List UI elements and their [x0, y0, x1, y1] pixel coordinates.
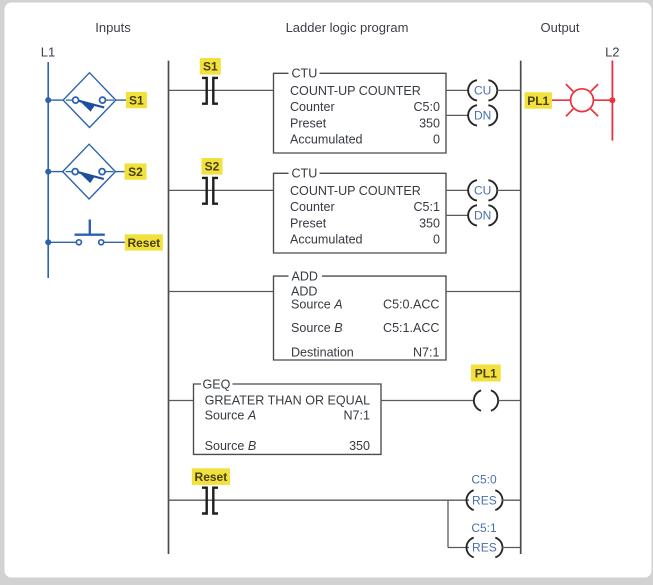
svg-text:C5:0: C5:0 — [413, 100, 440, 114]
svg-text:N7:1: N7:1 — [413, 345, 440, 359]
switch S1 (flow switch in diamond) — [63, 73, 116, 128]
wire box1 to CU coil — [446, 89, 469, 91]
wire RES2 coil to right rail — [502, 547, 521, 549]
svg-text:C5:0: C5:0 — [471, 473, 497, 487]
svg-text:L2: L2 — [605, 45, 619, 60]
wire S1 switch to label — [116, 99, 127, 101]
svg-text:S1: S1 — [129, 93, 144, 107]
OUTPUT-SIDE — [525, 61, 616, 141]
svg-text:Preset: Preset — [290, 216, 327, 230]
svg-text:CTU: CTU — [292, 67, 318, 81]
coil RES C5:1 — [466, 538, 502, 558]
compare block GEQ — [194, 384, 382, 454]
svg-text:Ladder logic program: Ladder logic program — [286, 20, 409, 35]
svg-text:RES: RES — [472, 493, 497, 507]
wire lamp to rail L2 — [593, 99, 612, 101]
svg-text:Counter: Counter — [290, 100, 335, 114]
wire box2 to CU coil — [446, 189, 469, 191]
pushbutton Reset (N.O.) — [75, 220, 105, 245]
svg-text:C5:1.ACC: C5:1.ACC — [383, 321, 439, 335]
svg-text:Preset: Preset — [290, 116, 327, 130]
switch S2 (flow switch in diamond) — [63, 144, 116, 199]
svg-text:C5:1: C5:1 — [413, 200, 440, 214]
svg-text:ADD: ADD — [291, 284, 318, 298]
svg-text:0: 0 — [433, 133, 440, 147]
wire CU coil2 to right rail — [497, 189, 521, 191]
wire RES1 coil to right rail — [502, 499, 521, 501]
wire rail to Reset button — [48, 241, 76, 243]
wire box2 to DN coil — [446, 214, 469, 216]
svg-text:PL1: PL1 — [527, 94, 549, 108]
svg-text:COUNT-UP COUNTER: COUNT-UP COUNTER — [290, 184, 421, 198]
svg-text:350: 350 — [349, 439, 370, 453]
svg-text:Accumulated: Accumulated — [290, 133, 363, 147]
svg-text:Output: Output — [540, 20, 579, 35]
svg-text:Accumulated: Accumulated — [290, 233, 363, 247]
node junction S2 row — [45, 169, 51, 175]
svg-text:COUNT-UP COUNTER: COUNT-UP COUNTER — [290, 84, 421, 98]
wire PL1 coil to right rail — [498, 400, 520, 402]
svg-text:0: 0 — [433, 233, 440, 247]
svg-text:CTU: CTU — [292, 167, 318, 181]
label Reset (rung5) — [192, 468, 230, 485]
wire branch to RES2 coil — [448, 547, 469, 549]
wire rung3 right — [446, 291, 521, 293]
node junction Reset row — [45, 239, 51, 245]
label S2 (rung2) — [202, 158, 223, 175]
ladder left rail — [168, 61, 170, 554]
power rail L2 — [611, 61, 613, 141]
svg-text:N7:1: N7:1 — [343, 408, 370, 422]
svg-text:350: 350 — [419, 216, 440, 230]
svg-text:PL1: PL1 — [475, 367, 497, 381]
wire PL1 label to lamp — [552, 99, 571, 101]
svg-text:GREATER THAN OR EQUAL: GREATER THAN OR EQUAL — [205, 393, 370, 407]
label PL1 (rung4) — [471, 365, 501, 382]
add block ADD — [274, 276, 447, 360]
wire rung3 left — [169, 291, 274, 293]
counter block CTU C5:0 — [274, 73, 447, 153]
contact Reset — [202, 488, 218, 514]
svg-text:Counter: Counter — [290, 200, 335, 214]
coil CU (rung1) — [468, 80, 497, 100]
power rail L1 — [47, 62, 49, 278]
label S1 (rung1) — [200, 58, 221, 75]
ladder right rail — [520, 61, 522, 554]
wire GEQ to PL1 coil — [381, 400, 475, 402]
wire Reset button to label — [104, 241, 126, 243]
svg-text:Reset: Reset — [195, 470, 228, 484]
label S1 (input) — [126, 92, 147, 108]
counter block CTU C5:1 — [274, 173, 447, 253]
wire rung1 — [169, 89, 274, 91]
contact S2 — [202, 178, 218, 204]
contact S1 — [202, 78, 218, 104]
svg-text:S1: S1 — [203, 60, 218, 74]
coil DN (rung2) — [468, 205, 497, 225]
SECTION-HEADERS — [41, 20, 620, 60]
INPUT-SIDE — [45, 62, 163, 278]
label PL1 (output) — [525, 92, 552, 108]
svg-text:S2: S2 — [205, 160, 220, 174]
wire rail to S2 switch — [48, 171, 64, 173]
svg-text:Source B: Source B — [291, 321, 343, 335]
wire rung2 — [169, 189, 274, 191]
coil DN (rung1) — [468, 105, 497, 125]
svg-text:Inputs: Inputs — [95, 20, 131, 35]
LADDER — [169, 58, 521, 557]
wire branch down — [447, 500, 449, 547]
label S2 (input) — [125, 163, 147, 179]
svg-text:DN: DN — [474, 209, 491, 223]
svg-text:Source A: Source A — [205, 408, 257, 422]
wire CU coil to right rail — [497, 89, 521, 91]
wire S2 switch to label — [115, 171, 126, 173]
svg-text:C5:1: C5:1 — [471, 521, 497, 535]
wire rung4 left — [169, 400, 194, 402]
wire rung5 — [169, 499, 470, 501]
svg-text:Source B: Source B — [205, 439, 257, 453]
svg-text:RES: RES — [472, 541, 497, 555]
svg-text:Reset: Reset — [127, 236, 160, 250]
coil CU (rung2) — [468, 180, 497, 200]
svg-text:Destination: Destination — [291, 345, 354, 359]
svg-text:CU: CU — [474, 84, 491, 98]
svg-text:ADD: ADD — [292, 269, 319, 283]
node junction on L2 — [609, 97, 615, 103]
node junction S1 row — [45, 97, 51, 103]
svg-text:CU: CU — [474, 184, 491, 198]
svg-text:C5:0.ACC: C5:0.ACC — [383, 298, 439, 312]
svg-text:Source A: Source A — [291, 298, 343, 312]
svg-text:L1: L1 — [41, 45, 55, 60]
pilot lamp PL1 — [566, 84, 598, 116]
svg-text:350: 350 — [419, 116, 440, 130]
wire box1 to DN coil — [446, 114, 469, 116]
wire rail to S1 switch — [48, 99, 64, 101]
coil RES C5:0 — [466, 490, 502, 510]
coil PL1 — [474, 390, 498, 410]
svg-text:S2: S2 — [128, 165, 143, 179]
label Reset (input) — [125, 234, 163, 250]
svg-text:DN: DN — [474, 109, 491, 123]
svg-text:GEQ: GEQ — [203, 377, 231, 391]
